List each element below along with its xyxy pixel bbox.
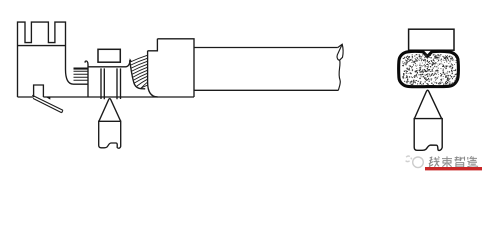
right view: crimp punch rectangle: [409, 29, 454, 50]
wire strands stipple texture: [402, 54, 457, 86]
block step shelf: [148, 39, 158, 51]
wire bottom edge: [194, 89, 338, 91]
watermark logo circle: [406, 156, 424, 168]
lance crossing wedge: [46, 97, 51, 100]
retention window (small box on bottom line): [34, 85, 44, 97]
strands comb top bar: [74, 68, 89, 70]
crimped barrel top line with right flare: [89, 60, 132, 67]
wire top edge: [194, 47, 338, 49]
watermark text 线束智造 (drawn strokes): [429, 156, 478, 167]
right anvil pencil (triangle + body with torn bottom): [414, 90, 442, 150]
conductor barrel left wall with flare: [85, 61, 88, 97]
box inner ledge line: [18, 45, 66, 47]
insulation barrel block: [157, 39, 194, 97]
watermark char 束: [442, 156, 452, 167]
punch shank pair B: [117, 68, 121, 99]
bottom line right segment: [43, 96, 194, 98]
watermark red underline bar: [425, 167, 482, 170]
wire strands comb: [74, 71, 89, 80]
left anvil pencil (triangle + body with torn bottom): [99, 99, 121, 122]
insulation wing hatch lines: [130, 55, 147, 88]
watermark char 智: [455, 156, 465, 167]
watermark char 造: [467, 156, 478, 167]
insulation barrel rear wall: [148, 51, 158, 97]
wire break symbol (leaf + S curve): [337, 44, 343, 90]
watermark char 线: [429, 157, 440, 167]
terminal box outline (castellated mating end): [18, 22, 89, 97]
insulation wing (hatched) outline: [130, 60, 146, 89]
punch shank pair A: [101, 68, 104, 99]
crimp punch head rectangle: [98, 49, 120, 62]
bottom line (anvil surface) left segment: [18, 96, 34, 98]
lance (diagonal strip): [32, 95, 63, 112]
crimped barrel cross-section blob: [399, 51, 459, 86]
